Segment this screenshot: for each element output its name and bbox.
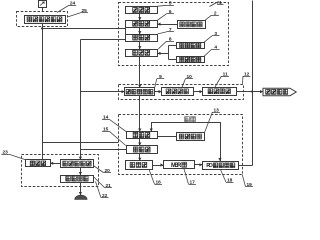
label 6 xyxy=(158,9,174,20)
wire odor-branch-bio xyxy=(43,142,119,144)
box biogas-tank zhao-qi-chu-guan (10) xyxy=(162,88,194,96)
svg-text:18: 18 xyxy=(227,177,233,183)
svg-text:22: 22 xyxy=(102,193,108,199)
label 7 xyxy=(158,27,174,34)
label 4 xyxy=(204,44,219,56)
box gas-boiler ran-qi-guo-lu (11) xyxy=(203,88,237,96)
arrowhead into-ran xyxy=(200,90,203,93)
wire mbr-ro xyxy=(195,164,203,166)
wire vent-drop xyxy=(42,8,44,12)
arrowhead into-mbr xyxy=(160,163,163,166)
arrowhead into-zhong-left xyxy=(158,52,161,55)
arrowhead into-zhong xyxy=(138,46,141,49)
svg-text:4: 4 xyxy=(214,44,217,50)
box aerobic-tank hao-yang-chi (14) xyxy=(127,132,158,139)
arrowhead into-wn xyxy=(79,157,82,160)
svg-text:MBR: MBR xyxy=(171,163,182,169)
svg-text:17: 17 xyxy=(190,179,196,185)
arrowhead into-hao xyxy=(138,129,141,132)
arrowhead into-yl xyxy=(79,172,82,175)
svg-text:10: 10 xyxy=(187,74,193,80)
box anaerobic-reactor yan-yang-fan-ying-qi (9) xyxy=(125,88,155,96)
dashed enclosure E sludge-section xyxy=(22,155,99,187)
label 13 xyxy=(205,107,220,132)
label 25 xyxy=(68,8,88,17)
dashed enclosure A odor-unit xyxy=(17,12,68,27)
label nong-shui (concentrate) xyxy=(185,117,196,122)
wire chain-5 yan-hao xyxy=(139,96,141,132)
wire zhong-branch xyxy=(158,46,177,60)
label 10 xyxy=(182,74,193,87)
wire chu-feed xyxy=(81,39,126,41)
wire pq13-hao xyxy=(158,136,177,138)
junction dot steam-cross xyxy=(251,91,253,93)
wire yan-zhao xyxy=(155,91,162,93)
label 15 xyxy=(102,127,126,146)
label 17 xyxy=(184,169,196,185)
box primary-settling chu-chen-chi (7) xyxy=(126,35,158,42)
svg-text:23: 23 xyxy=(3,150,9,156)
svg-text:13: 13 xyxy=(214,107,220,113)
vent mark xyxy=(40,2,44,6)
wire chain-1 tiao-hun xyxy=(139,14,141,21)
label 3 xyxy=(204,31,219,42)
label 20 xyxy=(93,166,111,174)
label 24 xyxy=(57,1,76,13)
wire odor-branch-top xyxy=(43,28,126,30)
arrowhead into-chu xyxy=(138,31,141,34)
label 22 xyxy=(96,182,109,199)
mud-cake outlet symbol xyxy=(75,195,87,199)
wire qing-mbr xyxy=(153,165,164,167)
box dosing-device-2 jia-yao-zhuang-zhi xyxy=(178,21,206,29)
wire dosing2-hun xyxy=(158,24,178,26)
arrowhead into-yan-left xyxy=(122,90,125,93)
wire bridge-hun-chu xyxy=(125,28,127,35)
arrowhead into-lv xyxy=(50,162,53,165)
svg-text:6: 6 xyxy=(169,9,172,15)
wire sludge-vertical xyxy=(80,40,82,160)
svg-text:24: 24 xyxy=(70,1,76,7)
label 23 xyxy=(1,150,25,160)
label 19 xyxy=(242,175,253,188)
arrowhead into-ro-left xyxy=(199,163,202,166)
wire chain-3 chu-zhong xyxy=(139,42,141,50)
wire yan-feed xyxy=(81,91,125,93)
wire yl-mud xyxy=(80,183,82,196)
wire chain-2 hun-chu xyxy=(139,28,141,35)
arrowhead nong-into-ro xyxy=(218,158,221,161)
svg-text:3: 3 xyxy=(214,31,217,37)
box aeration-device-4 pu-qi-zhuang-zhi xyxy=(177,57,205,63)
arrowhead into-qing xyxy=(138,158,141,161)
arrowhead nong-into-hao xyxy=(150,129,153,132)
label 14 xyxy=(102,115,126,132)
dashed enclosure C anaerobic-row xyxy=(119,85,244,100)
svg-text:RO: RO xyxy=(206,163,213,169)
svg-text:9: 9 xyxy=(159,74,162,80)
arrowhead into-yan-top xyxy=(138,85,141,88)
wire wn-yl xyxy=(80,168,82,176)
label 21 xyxy=(93,177,112,189)
svg-text:2: 2 xyxy=(214,11,217,17)
wire zhao-ran xyxy=(194,91,203,93)
dashed enclosure D bio-section xyxy=(119,115,243,175)
label 9 xyxy=(155,74,165,88)
box filter-press ya-lv-she-bei (21) xyxy=(61,176,94,183)
label 5 xyxy=(158,1,174,7)
svg-text:14: 14 xyxy=(103,115,109,121)
arrowhead into-mud xyxy=(79,192,82,195)
arrowhead into-hun xyxy=(138,17,141,20)
svg-text:12: 12 xyxy=(244,71,250,77)
box dosing-device-3 jia-yao-zhuang-zhi xyxy=(177,43,205,49)
label 18 xyxy=(221,170,234,184)
arrowhead into-er xyxy=(138,143,141,146)
svg-text:15: 15 xyxy=(103,127,109,133)
box coagulation-tank hun-ning-chi (6) xyxy=(126,21,158,28)
svg-text:21: 21 xyxy=(106,183,112,189)
box MBR-tank (17) xyxy=(164,161,195,169)
label 12 xyxy=(243,71,251,84)
wire er-sludge xyxy=(81,149,127,151)
box intermediate-tank zhong-jian-chi (8) xyxy=(126,50,158,57)
svg-text:25: 25 xyxy=(82,8,88,14)
wire nongshui-return xyxy=(152,123,221,162)
wire ran-steam xyxy=(237,91,264,93)
junction dot odor-tee xyxy=(41,27,43,29)
arrowhead into-zhao xyxy=(159,90,162,93)
label 8 xyxy=(158,37,174,49)
label 2 xyxy=(205,11,219,21)
box vent-stub xyxy=(39,1,47,8)
wire lv-wn xyxy=(51,163,61,165)
dashed enclosure B pretreatment-section xyxy=(119,3,229,66)
svg-text:7: 7 xyxy=(169,27,172,33)
arrowhead into-steam xyxy=(260,90,263,93)
wire chain-6 hao-er xyxy=(139,139,141,146)
box clean-water-tank qing-shui-chi (16) xyxy=(126,161,153,170)
svg-text:8: 8 xyxy=(169,37,172,43)
label 16 xyxy=(149,169,162,185)
label 1 xyxy=(218,0,224,6)
wire leader-1 xyxy=(210,2,219,7)
box RO-filter RO-mo-guo-lv-qi (18) xyxy=(203,162,239,170)
box secondary-settling er-chen-chi (15) xyxy=(127,146,158,154)
wire odor-main-vertical xyxy=(42,24,44,160)
wire chain-7 er-qing xyxy=(139,154,141,161)
svg-text:11: 11 xyxy=(223,71,228,77)
box sludge-thickener wu-ni-nong-suo-chi (20) xyxy=(61,160,94,168)
box odor-purifier chou-qi-jing-hua-she-bei xyxy=(25,16,66,24)
wire ro-out xyxy=(239,1,253,166)
svg-text:16: 16 xyxy=(156,179,162,185)
svg-text:20: 20 xyxy=(105,168,111,174)
box regulating-tank tiao-jie-chi (5) xyxy=(126,7,158,14)
svg-text:1: 1 xyxy=(219,0,222,6)
wire chain-4 zhong-yan xyxy=(139,57,141,88)
label 11 xyxy=(215,71,229,87)
box aeration-device-13 pu-qi-zhuang-zhi xyxy=(177,133,205,141)
svg-text:5: 5 xyxy=(169,1,172,7)
box filtrate-tank lv-ye-chi (23) xyxy=(26,160,51,167)
output-steam banner shu-chu-zheng-qi (12) xyxy=(263,88,296,96)
arrowhead into-hun-left xyxy=(158,23,161,26)
svg-text:19: 19 xyxy=(247,182,253,188)
